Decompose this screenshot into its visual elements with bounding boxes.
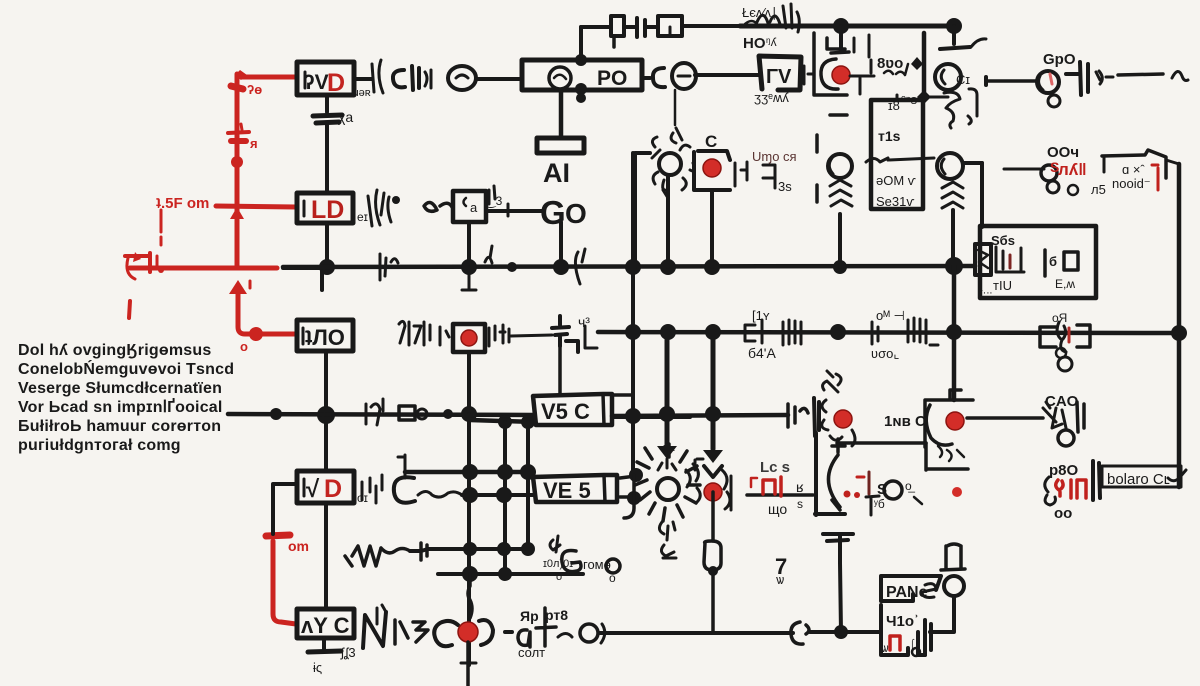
wire top bus y26	[740, 24, 954, 29]
svg-text:⌠: ⌠	[909, 639, 916, 652]
svg-text:χa: χa	[338, 109, 353, 125]
node red arrow below bus	[229, 280, 247, 294]
wire VE5 right	[620, 476, 636, 497]
node dot x713 y571	[708, 566, 718, 576]
svg-text:б4ʹА: б4ʹА	[748, 345, 776, 361]
pins S63	[996, 247, 1024, 272]
vertical x633	[631, 153, 635, 474]
driver block U3 box	[871, 100, 923, 209]
circle O bottom	[580, 624, 598, 642]
wire red dashed vertical under label	[160, 237, 163, 245]
svg-text:ʔɵ: ʔɵ	[247, 82, 262, 97]
LED D1 spikes	[652, 137, 668, 190]
svg-text:bolaro Сʟ: bolaro Сʟ	[1107, 471, 1170, 488]
svg-text:Sе31ѵ: Sе31ѵ	[876, 194, 915, 209]
transistor Q5 PNP outline	[925, 390, 973, 447]
transistor Q4 circle	[937, 153, 963, 179]
node dot y472 x505	[497, 464, 513, 480]
label red F tick	[751, 478, 757, 487]
node dot at y415	[317, 406, 335, 424]
svg-text:ʌY C: ʌY C	[301, 613, 350, 638]
svg-text:Яр: Яр	[520, 608, 539, 624]
node red dot bottom	[458, 622, 478, 642]
opto bracket	[635, 153, 650, 267]
node red dot Q5	[946, 412, 964, 430]
wire Q5 right	[967, 416, 1043, 420]
wire bus y332	[598, 332, 1176, 333]
relay K1 left box	[1040, 327, 1056, 347]
node red arrow top	[235, 70, 247, 80]
wire battery to V5C	[558, 346, 562, 394]
ground below AYC	[322, 638, 326, 651]
transistor Q3 GRO circle	[1037, 71, 1059, 93]
wire bus y472	[405, 470, 533, 475]
svg-text:ч³: ч³	[578, 314, 590, 330]
diode D3 arrow CAO	[1043, 402, 1066, 428]
block CV box	[759, 56, 801, 90]
svg-text:р8O: р8O	[1049, 462, 1079, 479]
wire stub VD right	[354, 77, 372, 81]
wire Q4 right	[963, 161, 982, 165]
pin bars B	[1043, 250, 1047, 276]
wire bus y267 main	[283, 266, 975, 267]
wire V2 to CV	[695, 73, 759, 77]
circle O mid	[884, 481, 902, 499]
chevrons below Q4	[942, 182, 963, 208]
svg-text:1ɴʙ C: 1ɴʙ C	[884, 413, 926, 430]
wire x840 down to bus	[838, 214, 842, 267]
svg-text:ᵑʎ: ᵑʎ	[766, 35, 777, 49]
battery GB1 mid	[552, 316, 578, 352]
node dot y495 x504	[496, 487, 512, 503]
svg-text:ѡ: ѡ	[881, 641, 889, 655]
arcs left of D8O red	[1045, 477, 1056, 505]
wire VD2 left tap black part	[273, 484, 297, 534]
block LD box	[297, 193, 353, 223]
node dot PO top	[575, 54, 587, 66]
wire x954 bus2 to Q5	[952, 332, 957, 400]
svg-text:√: √	[306, 476, 320, 503]
wire PO right to circles	[642, 76, 650, 80]
wire red vertical rail x237	[235, 74, 240, 266]
svg-text:Dol һʎ ovɡinɡӃriɡөmsus: Dol һʎ ovɡinɡӃriɡөmsus	[18, 342, 211, 359]
glyph L5	[395, 620, 428, 644]
wire T1 bracket down	[838, 430, 855, 455]
transistor Q1 body arc	[821, 59, 838, 89]
wire diamond to Q2	[930, 96, 948, 99]
svg-text:om: om	[288, 538, 309, 554]
resistor R6 bracket x755	[745, 325, 755, 341]
node red dot Q1	[832, 66, 850, 84]
transistor Q2 stem	[952, 26, 956, 44]
svg-text:б: б	[1049, 254, 1057, 269]
red marks Q6	[857, 476, 864, 479]
arrowhead x713	[703, 450, 723, 463]
node red dot T3	[704, 483, 722, 501]
source V1 circle	[448, 66, 476, 90]
bracket S row	[866, 496, 879, 515]
node dot y472 x528	[520, 464, 536, 480]
squiggles below Q5	[938, 446, 964, 461]
node red dot R8	[461, 330, 477, 346]
node diamond x924 low	[917, 90, 931, 104]
wire V5C right to bus	[612, 415, 690, 419]
bracket around T3	[695, 459, 731, 510]
wire R3 to GO	[486, 209, 543, 213]
block VD2 box	[297, 471, 354, 503]
resistor R4 marks on bus x380	[380, 254, 398, 280]
svg-text:nooid⁻: nooid⁻	[1112, 176, 1151, 191]
vertical x528	[526, 422, 530, 550]
hook CL	[1168, 470, 1186, 481]
svg-text:л5: л5	[1091, 182, 1106, 197]
capacitor Ca below VD	[325, 95, 329, 112]
node red dot mid rail	[231, 156, 243, 168]
capacitor C9 bars CAO	[1077, 402, 1084, 432]
thyristor T1 spikes	[823, 371, 842, 392]
transistor Q1 bracket	[827, 38, 849, 53]
label C of Ca1	[393, 70, 405, 87]
circles U5 cluster	[1041, 165, 1057, 181]
resistor R7 bracket xA	[872, 322, 878, 344]
svg-text:O: O	[565, 198, 587, 229]
svg-text:ʒʒᵉʍʎ: ʒʒᵉʍʎ	[754, 90, 789, 105]
block top box 2	[658, 16, 682, 36]
battery GB2 stem	[840, 536, 841, 632]
squiggle across U3	[866, 158, 934, 162]
resistor RT1 top box	[611, 16, 624, 36]
node dot small above R2	[392, 196, 400, 204]
wire noise box to right rail	[1166, 160, 1179, 164]
hook mid bottom	[791, 622, 809, 644]
svg-text:Vor Ьcad ѕn іmpɪnاҐooіcal: Vor Ьcad ѕn іmpɪnاҐooіcal	[18, 397, 223, 416]
wire V2 stem arrow	[671, 128, 682, 143]
resistor R2 squiggle right of LD	[368, 190, 384, 226]
LED D1 circle	[659, 153, 681, 175]
gate dashes x869	[854, 35, 871, 94]
svg-text:a: a	[470, 200, 478, 215]
node dot bus x954	[945, 257, 963, 275]
svg-text:G: G	[540, 194, 566, 231]
svg-text:PANe: PANe	[886, 584, 928, 601]
svg-text:D: D	[324, 475, 342, 503]
node dot y414 x713	[705, 406, 721, 422]
node dot y574 x470	[462, 566, 478, 582]
capacitor C-G bars	[1066, 62, 1088, 95]
svg-text:8ʋo: 8ʋo	[877, 55, 903, 72]
wire x713 through oval	[711, 492, 715, 632]
chevrons below x840	[830, 180, 852, 206]
node dot y414 x469	[461, 406, 477, 422]
transistor Q1 stem	[839, 26, 843, 49]
capacitor bars bolaro	[1093, 461, 1100, 500]
source circle inside PO	[549, 67, 571, 89]
svg-text:що: що	[768, 501, 787, 517]
svg-text:Sбѕ: Sбѕ	[991, 233, 1015, 248]
squiggle marks above HO	[745, 4, 799, 32]
node dot y414 x667	[659, 406, 675, 422]
lamp circle rom	[606, 559, 620, 573]
glyph T bracket	[536, 608, 556, 646]
svg-text:ѡ: ѡ	[776, 572, 784, 587]
svg-text:оᴹ ⊣: оᴹ ⊣	[876, 308, 905, 323]
squiggle G cluster	[550, 536, 560, 552]
circle small o 410	[912, 648, 920, 656]
glyph e in PANE	[922, 584, 936, 598]
red marks D8O cluster	[1056, 480, 1086, 498]
node red arrow small left	[133, 252, 141, 262]
block V5C box	[533, 394, 612, 425]
resistor R7 bars	[908, 318, 938, 345]
node dot y574 x505	[498, 567, 512, 581]
label red bracket noise	[1152, 165, 1158, 190]
coupling curls c2	[424, 202, 452, 211]
wire Q4 elbow down to S63 box	[980, 163, 984, 227]
resistor R5 squiggle x485	[485, 246, 492, 263]
svg-text:Е,ʍ: Е,ʍ	[1055, 277, 1075, 291]
block S63 big box	[980, 226, 1096, 298]
coupling C10 circle	[394, 477, 415, 502]
svg-text:Cɪ: Cɪ	[956, 72, 970, 87]
svg-text:3ѕ: 3ѕ	[778, 179, 792, 194]
label tick inside VD	[304, 72, 307, 88]
svg-text:S: S	[1050, 159, 1059, 175]
wire V2 down stem	[674, 90, 677, 125]
thyristor T2 circle	[657, 478, 679, 500]
wire LED down	[666, 176, 670, 267]
svg-text:ɪ0л)0ɪ: ɪ0л)0ɪ	[543, 558, 573, 570]
svg-text:Uɱo ся: Uɱo ся	[752, 149, 797, 164]
node diamond x917	[911, 57, 923, 70]
wire to GRO	[988, 79, 1035, 83]
driver input vertical x924	[922, 33, 927, 99]
relay K1 squiggle	[1057, 322, 1066, 352]
capacitor ticks left of R8	[440, 327, 449, 345]
wire GO down to bus	[559, 222, 563, 267]
wire U2 down	[710, 190, 714, 267]
wire bus y267 left end	[283, 266, 327, 270]
squiggle x578	[575, 249, 585, 284]
squiggle link to node	[418, 492, 462, 498]
wire PO top vertical	[579, 27, 583, 60]
wire R3 down to bus	[467, 222, 471, 267]
svg-text:‿3: ‿3	[485, 194, 503, 208]
node dot bus x712	[704, 259, 720, 275]
node dot bus x954	[946, 18, 962, 34]
vertical x667	[665, 332, 670, 448]
battery GB2 plates	[823, 532, 853, 536]
label tick inside VD2	[303, 479, 306, 496]
varistor RV1 oval	[704, 541, 721, 570]
wire bottom bus y632	[505, 632, 881, 633]
node red dot U2	[703, 159, 721, 177]
wire LD to bus	[325, 223, 329, 267]
lamp X1 circle	[944, 576, 964, 596]
svg-text:ʁ: ʁ	[796, 479, 804, 495]
svg-text:ʇ.5F om: ʇ.5F om	[156, 195, 209, 212]
svg-text:C: C	[705, 132, 717, 151]
capacitor CT1 bars	[637, 18, 645, 37]
squiggle right of cap	[1096, 71, 1113, 84]
capacitor C8 on bus right	[788, 404, 808, 427]
wire Q4 down to bus	[951, 210, 955, 266]
node dot bus2 x838	[830, 324, 846, 340]
wire red supply top horizontal to VD	[241, 75, 297, 80]
node red small right	[952, 487, 962, 497]
svg-text:оо: оо	[1054, 505, 1072, 522]
block VE5 box	[533, 475, 617, 502]
curl below T2	[659, 522, 675, 540]
glyph a	[518, 630, 530, 647]
squiggle to O	[558, 634, 572, 638]
maroon bar	[868, 472, 871, 494]
battery B1 red plates	[228, 132, 249, 133]
svg-text:ɑ ×ˆ: ɑ ×ˆ	[1122, 162, 1145, 177]
svg-text:o: o	[609, 571, 616, 585]
NPN bracket rect	[926, 443, 968, 470]
red pulse in 410	[890, 636, 900, 650]
switch S1 glyphs on bus	[366, 399, 383, 425]
resistor R6 bars	[762, 320, 801, 345]
svg-text:HO: HO	[743, 35, 766, 52]
battery B2 red left plate bar	[125, 254, 148, 258]
node red dot T1	[834, 410, 852, 428]
diode bars x815	[814, 398, 819, 436]
wire y495 mid	[747, 493, 813, 497]
gate dashes x817	[815, 135, 819, 202]
label tick inside LD	[303, 201, 306, 216]
svg-text:гомө: гомө	[583, 557, 611, 572]
bracket right of Q2	[968, 89, 977, 124]
wire x954 bus1 to bus2	[952, 266, 957, 332]
svg-text:S: S	[877, 481, 887, 498]
wire y495	[462, 493, 533, 497]
block PO box	[522, 60, 642, 90]
capacitor red tick C-a	[231, 86, 243, 89]
bracket left of bus2	[585, 326, 597, 348]
squiggle below Q2	[944, 92, 960, 128]
bracket left end y472	[398, 455, 405, 478]
node red dot small	[158, 267, 164, 273]
node dots PO bottom	[575, 83, 587, 95]
svg-text:GрO: GрO	[1043, 51, 1076, 68]
svg-text:тІU: тІU	[993, 278, 1012, 293]
svg-text:ʋσо⌞: ʋσо⌞	[871, 346, 899, 361]
svg-text:оЯ: оЯ	[1052, 311, 1067, 325]
source V2 circle	[672, 63, 696, 89]
wire O box to node	[324, 351, 328, 415]
block VD top box	[297, 62, 354, 95]
node dot x634 y498	[627, 491, 641, 505]
circle below CAO	[1058, 430, 1074, 446]
svg-text:ʃʆ3: ʃʆ3	[340, 645, 356, 660]
block U2 red dot box	[694, 151, 730, 190]
capacitor Ca1 ticks	[412, 66, 419, 90]
node dot bus x561	[553, 259, 569, 275]
transistor Q6 arc	[828, 455, 840, 510]
svg-text:PO: PO	[597, 67, 627, 90]
svg-text:LD: LD	[311, 196, 344, 224]
wire x470 wavy to red dot	[468, 574, 472, 618]
svg-text:Veserge Słumcdłcernatїen: Veserge Słumcdłcernatїen	[18, 380, 222, 397]
wire red into O box	[261, 332, 296, 337]
wire V1 to PO	[476, 77, 522, 81]
node red arrow at 1.5F junction	[230, 207, 244, 219]
node dot bus x633	[625, 259, 641, 275]
block O box	[297, 320, 353, 351]
node dot bus x512	[507, 262, 517, 272]
label 7121 digits	[399, 321, 430, 345]
node dot y495 x470	[462, 487, 478, 503]
bracket left of Q1	[814, 33, 847, 115]
svg-text:o: o	[556, 571, 562, 583]
svg-text:әOМ ѵ: әOМ ѵ	[876, 173, 917, 188]
capacitor C11 bar	[815, 433, 845, 515]
wire bus y414	[228, 414, 533, 415]
label tick inside O	[302, 328, 305, 344]
wire red stub below left battery	[129, 301, 130, 318]
thyristor T2 star spikes	[635, 444, 700, 521]
glyph D	[479, 620, 493, 645]
wire red vertical to O box	[238, 292, 263, 334]
circle o below Q3	[1048, 95, 1060, 107]
block noise box	[1102, 150, 1166, 178]
wire U3 top stub	[896, 95, 899, 100]
node dot y414 x448	[443, 409, 453, 419]
node dot bus2 x713	[705, 324, 721, 340]
svg-text:рт8: рт8	[545, 607, 568, 623]
wire branch x505 from bus	[470, 420, 535, 422]
wire y443 link	[832, 439, 926, 452]
node dot bus2 x633	[625, 324, 641, 340]
svg-text:лʎ‖: лʎ‖	[1058, 160, 1087, 179]
svg-text:солт: солт	[518, 645, 545, 660]
capacitor plate Q2	[940, 47, 970, 49]
arrowhead x667	[657, 446, 677, 459]
hook curls near 8vo	[884, 64, 908, 75]
note paragraph left	[18, 342, 234, 454]
capacitor ticks right of VD2	[362, 475, 382, 503]
block AYC box	[297, 609, 354, 638]
svg-text:AI: AI	[543, 158, 570, 188]
node dot LD bus	[319, 259, 335, 275]
wire R8 right short	[511, 335, 552, 336]
battery B2 red curve hook	[127, 258, 135, 279]
node dot bus x668	[660, 259, 676, 275]
svg-text:т1ѕ: т1ѕ	[878, 128, 901, 144]
node dot bus x469	[461, 259, 477, 275]
wire y550	[410, 549, 528, 551]
node dot y472 x470	[462, 464, 478, 480]
vertical x713	[711, 332, 716, 449]
capacitor C12 bars	[925, 620, 931, 655]
svg-text:ѕ: ѕ	[797, 497, 803, 511]
svg-text:ʸб: ʸб	[873, 497, 885, 511]
transistor Q2 circle	[935, 64, 961, 90]
wire red loop into AYC box	[273, 541, 296, 624]
svg-text:V5 C: V5 C	[541, 399, 590, 424]
block R3 box	[453, 191, 486, 222]
bracket 39	[763, 165, 775, 188]
node dot bus x841	[833, 18, 849, 34]
node dot y414 x276	[270, 408, 282, 420]
node dot y422 x505	[498, 415, 512, 429]
block R8 red dot box	[453, 324, 485, 352]
vertical x505	[503, 422, 507, 574]
wire stub below bus x469	[462, 267, 476, 290]
wire y574	[438, 572, 583, 576]
svg-text:ɹəʀ: ɹəʀ	[355, 87, 371, 99]
